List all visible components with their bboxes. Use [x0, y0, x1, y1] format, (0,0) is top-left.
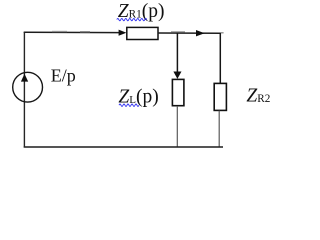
- gray stub right of corner: [221, 32, 224, 34]
- gray wire below ZL: [176, 106, 178, 147]
- gray wire below ZR2: [218, 111, 220, 147]
- impedance ZL box: [172, 79, 184, 105]
- arrowhead into resistor ZR1: [119, 30, 127, 36]
- bottom wire: [24, 146, 223, 148]
- arrowhead on wire toward right corner: [196, 30, 205, 36]
- source arrow up: [21, 74, 28, 82]
- svg-text:ZR2: ZR2: [246, 85, 270, 106]
- left vertical wire: [23, 32, 25, 148]
- grammar squiggle under ZR1: [117, 18, 147, 20]
- gray smudge on top wire 3: [171, 31, 185, 33]
- resistor ZR1 box: [127, 27, 158, 39]
- arrowhead into ZL: [173, 72, 181, 79]
- node A: wire down to ZL: [176, 33, 178, 73]
- impedance ZR2 box: [214, 83, 226, 110]
- right vertical wire: [219, 33, 221, 84]
- grammar squiggle under ZL: [119, 104, 139, 106]
- gray smudge on top wire 2: [80, 31, 90, 33]
- source circle E: [13, 72, 43, 102]
- gray smudge on top wire 1: [52, 31, 67, 33]
- wire top horizontal left segment: [24, 31, 120, 33]
- svg-text:E/p: E/p: [51, 65, 76, 85]
- wire from ZR1 to right corner: [158, 32, 221, 34]
